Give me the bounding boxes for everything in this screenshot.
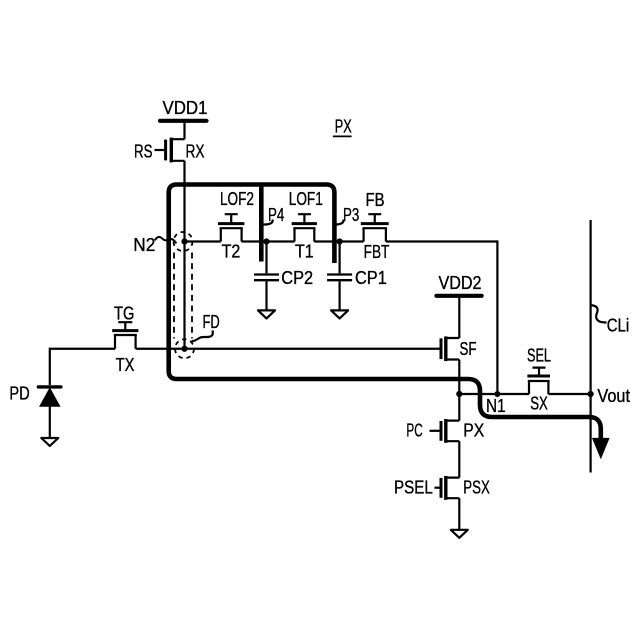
- svg-text:N2: N2: [133, 235, 155, 255]
- wire RX source down through N2 to FD column: [183, 161, 185, 349]
- svg-text:FBT: FBT: [364, 242, 390, 262]
- svg-text:SX: SX: [530, 394, 548, 414]
- node Vout: [588, 386, 631, 406]
- svg-text:FB: FB: [366, 190, 385, 210]
- transistor TX: [112, 322, 138, 375]
- svg-text:SF: SF: [460, 339, 477, 359]
- capacitor CP1: [327, 242, 387, 310]
- svg-text:N1: N1: [486, 396, 506, 416]
- svg-text:PX: PX: [463, 421, 484, 441]
- svg-text:LOF1: LOF1: [289, 189, 323, 209]
- label CLi with leader: [591, 305, 630, 336]
- wire FBT to N1 branch: [386, 242, 498, 395]
- transistor RX: [155, 138, 205, 163]
- svg-text:VDD1: VDD1: [163, 98, 208, 118]
- svg-text:TX: TX: [116, 355, 135, 375]
- wire T2 to T1: [242, 240, 295, 242]
- svg-text:P3: P3: [343, 205, 359, 225]
- svg-text:RS: RS: [134, 142, 153, 162]
- svg-text:T2: T2: [222, 242, 241, 262]
- wire VDD2 to SF drain: [458, 297, 460, 338]
- svg-text:TG: TG: [114, 304, 134, 324]
- photodiode PD: [9, 383, 61, 437]
- svg-text:PX: PX: [335, 117, 352, 137]
- transistor T1: [292, 214, 317, 261]
- wire T1 to FBT: [314, 240, 363, 242]
- ground (PSX): [451, 530, 468, 538]
- power rail VDD1: [160, 98, 208, 121]
- svg-text:PC: PC: [406, 421, 422, 441]
- transistor PSX: [435, 476, 490, 500]
- svg-text:CP2: CP2: [281, 268, 313, 288]
- node P4 with leader: [263, 205, 284, 245]
- svg-text:CLi: CLi: [607, 316, 630, 336]
- wire PX to PSX: [458, 441, 460, 477]
- svg-text:CP1: CP1: [355, 268, 387, 288]
- ground (PD): [41, 438, 58, 446]
- svg-text:PD: PD: [9, 383, 29, 403]
- bold FD net (top loop): [169, 185, 601, 440]
- bold FD net branch at P4: [259, 183, 264, 262]
- bold output arrowhead: [593, 439, 609, 458]
- column line CLi: [589, 220, 591, 473]
- wire VDD1 to RX drain: [183, 122, 185, 139]
- transistor SF: [441, 336, 477, 361]
- wire N1 row to SX: [459, 393, 529, 395]
- wire SX to Vout: [548, 393, 590, 395]
- svg-text:LOF2: LOF2: [220, 189, 254, 209]
- svg-text:FD: FD: [203, 312, 220, 332]
- node N1: [456, 391, 505, 416]
- ground (CP1): [331, 310, 348, 318]
- node FD dashed region: [174, 232, 195, 358]
- node P3 with leader: [334, 205, 359, 245]
- wire PD to TX to FD and SF gate: [50, 349, 441, 385]
- svg-text:P4: P4: [268, 205, 284, 225]
- power rail VDD2: [436, 273, 481, 296]
- wire PSX to ground: [458, 498, 460, 529]
- node FD junction dot: [181, 346, 187, 352]
- capacitor CP2: [254, 242, 313, 310]
- svg-text:RX: RX: [186, 142, 205, 162]
- svg-text:T1: T1: [295, 242, 314, 262]
- svg-text:PSX: PSX: [463, 478, 490, 498]
- transistor T2: [218, 214, 244, 261]
- wire N2 row: [185, 240, 221, 242]
- svg-text:VDD2: VDD2: [439, 273, 482, 293]
- label PX (pixel, underlined): [333, 117, 352, 137]
- label FD with leader: [192, 312, 220, 342]
- ground (CP2): [258, 310, 275, 318]
- svg-text:SEL: SEL: [527, 345, 551, 365]
- transistor FBT: [361, 214, 390, 262]
- wire SF source to N1 and PX: [458, 360, 460, 421]
- transistor PX: [430, 419, 485, 443]
- node N2: [133, 235, 187, 255]
- svg-text:Vout: Vout: [597, 386, 630, 406]
- svg-text:PSEL: PSEL: [394, 478, 433, 498]
- transistor SX: [527, 368, 550, 414]
